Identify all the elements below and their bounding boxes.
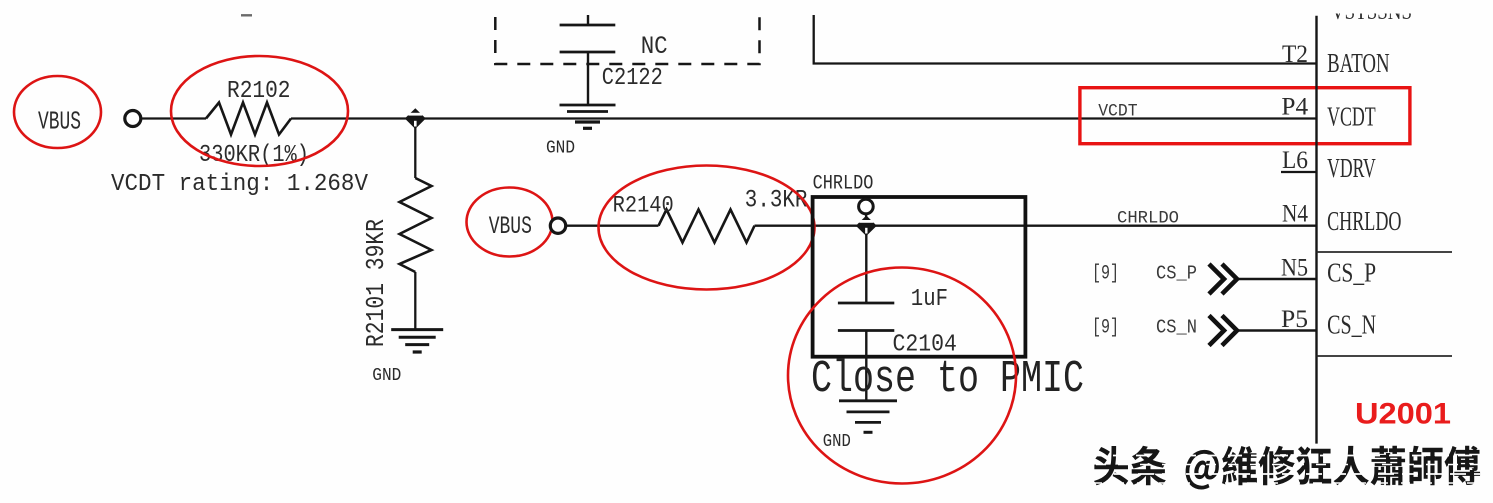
ground C2104 [839, 401, 897, 433]
node junction (VCDT/R2101) [406, 110, 424, 128]
thick box Close to PMIC [813, 197, 1026, 357]
terminal circle VBUS left [125, 111, 141, 127]
red ellipse around VBUS left [14, 76, 101, 148]
svg-text:R2101 39KR: R2101 39KR [361, 219, 391, 347]
svg-text:VBUS: VBUS [489, 212, 532, 241]
wire CHRLDO net (terminal to R2140) [565, 225, 659, 227]
svg-text:N5: N5 [1281, 255, 1308, 282]
IC section separator 1 [1317, 251, 1453, 253]
svg-text:[9]: [9] [1092, 263, 1119, 286]
svg-text:CS_P: CS_P [1156, 263, 1197, 285]
svg-text:Close to PMIC: Close to PMIC [811, 354, 1084, 405]
stray mark [241, 14, 252, 16]
svg-text:VBUS: VBUS [38, 107, 81, 137]
svg-text:GND: GND [546, 139, 575, 159]
red ellipse around VBUS second [467, 188, 553, 257]
svg-text:P4: P4 [1281, 94, 1308, 121]
svg-text:CS_N: CS_N [1156, 317, 1197, 339]
wire BATON to pin T2 [814, 15, 1317, 64]
svg-text:VCDT: VCDT [1098, 102, 1137, 122]
svg-text:C2122: C2122 [602, 65, 663, 92]
svg-text:VCDT: VCDT [1327, 102, 1376, 132]
svg-text:T2: T2 [1282, 41, 1308, 68]
svg-text:1uF: 1uF [911, 286, 948, 313]
svg-text:N4: N4 [1282, 201, 1308, 228]
dashed NC box [495, 17, 759, 64]
svg-text:P5: P5 [1281, 306, 1308, 333]
node circle CHRLDO [859, 199, 874, 214]
red ellipse around R2140 [599, 166, 815, 290]
capacitor C2122 [560, 15, 616, 105]
svg-text:GND: GND [372, 366, 401, 386]
svg-text:[9]: [9] [1092, 317, 1119, 340]
capacitor C2104 [838, 303, 894, 401]
svg-text:R2102: R2102 [227, 78, 291, 105]
svg-text:CS_P: CS_P [1327, 258, 1376, 288]
chevron CS_N [1209, 316, 1237, 346]
wire CS_P to pin N5 [1237, 278, 1317, 281]
svg-text:VDRV: VDRV [1327, 153, 1376, 183]
wire R2101 to ground [414, 272, 416, 330]
wire VCDT net (terminal to R2102) [140, 117, 206, 119]
svg-text:U2001: U2001 [1355, 398, 1451, 431]
svg-text:CHRLDO: CHRLDO [813, 173, 874, 196]
IC section separator 2 [1317, 355, 1453, 357]
chevron CS_P [1209, 264, 1237, 294]
ground R2101 [391, 330, 443, 352]
terminal circle VBUS second [550, 218, 565, 233]
wire node circle to junction [865, 214, 868, 218]
svg-text:VCDT rating: 1.268V: VCDT rating: 1.268V [111, 171, 368, 198]
svg-text:NC: NC [641, 32, 668, 61]
red box around VCDT pin [1080, 88, 1410, 144]
watermark 头条 @维修狂人萧师傅 [1094, 446, 1480, 490]
resistor R2140 [659, 210, 755, 243]
svg-text:CHRLDO: CHRLDO [1327, 206, 1401, 236]
wire VCDT net (R2102 to U2001 pin P4) [291, 117, 1317, 119]
svg-text:CHRLDO: CHRLDO [1117, 209, 1179, 229]
ground C2122 [560, 105, 616, 128]
svg-text:L6: L6 [1282, 147, 1308, 174]
svg-text:R2140: R2140 [613, 193, 674, 219]
resistor R2102 [206, 103, 291, 135]
red ellipse around R2102 [171, 56, 348, 166]
svg-text:GND: GND [823, 432, 851, 452]
wire CS_N to pin P5 [1237, 329, 1317, 332]
IC U2001 body edge [1315, 16, 1317, 444]
svg-text:3.3KR: 3.3KR [745, 186, 808, 215]
node junction CHRLDO [857, 217, 875, 234]
red circle around Close to PMIC [788, 268, 1016, 484]
pin stub L6 [1281, 171, 1317, 173]
wire CHRLDO net (R2140 to U2001 pin N4) [755, 225, 1317, 227]
svg-text:CS_N: CS_N [1327, 310, 1376, 340]
wire junction to C2104 [865, 234, 867, 303]
wire junction to R2101 [414, 119, 416, 179]
resistor R2101 [400, 178, 432, 272]
svg-text:BATON: BATON [1327, 48, 1390, 78]
